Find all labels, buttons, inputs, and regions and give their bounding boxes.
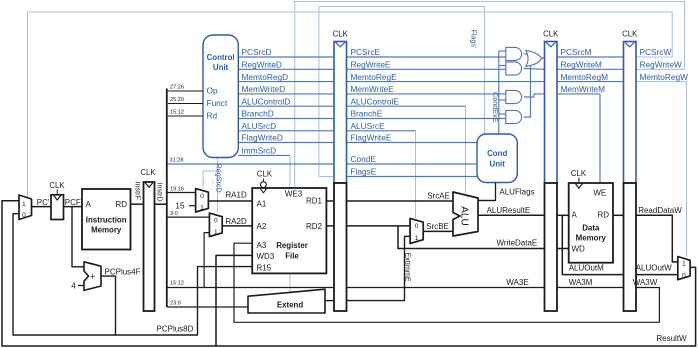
svg-text:27:26: 27:26 xyxy=(170,85,184,91)
svg-text:CLK: CLK xyxy=(571,169,587,178)
svg-text:RegSrcD: RegSrcD xyxy=(215,164,224,193)
svg-text:CLK: CLK xyxy=(543,30,559,39)
svg-text:PCF: PCF xyxy=(65,198,81,207)
extend unit xyxy=(248,289,325,313)
svg-text:0: 0 xyxy=(200,193,204,200)
wire PCF to adder xyxy=(72,207,84,267)
svg-text:ExtImmE: ExtImmE xyxy=(403,253,412,282)
wire MemWriteD xyxy=(238,93,334,95)
svg-text:Instruction: Instruction xyxy=(86,216,127,225)
wire MemtoRegD xyxy=(238,81,334,83)
svg-text:15:12: 15:12 xyxy=(170,110,184,116)
wire 4 constant xyxy=(78,285,84,287)
instruction memory xyxy=(82,189,131,250)
svg-text:WD3: WD3 xyxy=(257,252,275,261)
wire WA3W return to A3 xyxy=(234,243,659,322)
svg-text:RD2: RD2 xyxy=(306,222,323,231)
svg-text:Memory: Memory xyxy=(576,233,607,242)
svg-text:RA1D: RA1D xyxy=(225,191,247,200)
wire RegWriteM xyxy=(557,68,624,70)
svg-text:A1: A1 xyxy=(257,199,267,208)
wire 15 constant xyxy=(189,205,196,207)
svg-text:ImmSrcD: ImmSrcD xyxy=(242,146,277,156)
wire WA3E xyxy=(347,287,545,289)
svg-text:InstrD: InstrD xyxy=(155,183,164,202)
wire ALUResultE xyxy=(478,214,545,216)
svg-text:A2: A2 xyxy=(257,222,267,231)
wire 3:0 to RA2D mux xyxy=(167,216,210,218)
svg-text:PCSrcW: PCSrcW xyxy=(640,47,672,57)
wire gate outputs xyxy=(524,53,527,55)
svg-text:25:20: 25:20 xyxy=(170,97,184,103)
svg-text:MemWriteD: MemWriteD xyxy=(242,84,286,94)
svg-text:ResultW: ResultW xyxy=(656,334,687,343)
wire ImmSrcD select to Extend xyxy=(289,155,291,292)
svg-text:MemtoRegE: MemtoRegE xyxy=(351,72,398,82)
svg-text:19:16: 19:16 xyxy=(170,186,184,192)
svg-text:Control: Control xyxy=(207,53,235,62)
wire PCPlus8D to R15 xyxy=(116,267,253,335)
pipeline register M/W control section xyxy=(624,42,637,184)
wire FlagsE xyxy=(347,176,478,178)
svg-text:A3: A3 xyxy=(257,241,267,250)
svg-text:CondE: CondE xyxy=(351,154,377,164)
svg-text:ALUControlE: ALUControlE xyxy=(351,96,400,106)
wire RA2D to A2 xyxy=(222,225,252,227)
svg-text:Rd: Rd xyxy=(207,111,218,121)
svg-text:CLK: CLK xyxy=(140,168,156,177)
OR gate PCSrcM xyxy=(526,51,542,67)
wire RD2 to D/E register xyxy=(326,225,334,227)
mux ResultW xyxy=(678,257,690,280)
svg-text:3:0: 3:0 xyxy=(170,211,178,217)
svg-text:MemWriteE: MemWriteE xyxy=(351,84,395,94)
wire Rd 15:12 xyxy=(168,115,203,117)
svg-text:CLK: CLK xyxy=(333,30,349,39)
wire ALUOutM to data memory A xyxy=(557,214,569,216)
svg-text:BranchE: BranchE xyxy=(351,109,383,119)
svg-text:1: 1 xyxy=(415,235,419,242)
wire PCSrcD xyxy=(238,56,334,58)
wire PCSrcE xyxy=(347,56,506,58)
svg-text:ALUOutW: ALUOutW xyxy=(636,263,672,272)
svg-text:1: 1 xyxy=(200,204,204,211)
wire MemtoRegW to result mux select xyxy=(636,82,687,258)
wire ALUOutW to result mux xyxy=(636,274,678,276)
svg-text:1: 1 xyxy=(214,229,218,236)
svg-text:Data: Data xyxy=(582,224,600,233)
svg-text:MemtoRegM: MemtoRegM xyxy=(561,72,609,82)
AND gate PCSrcE&CondExE xyxy=(506,47,522,60)
wire ResultW xyxy=(2,201,696,346)
svg-text:PCPlus4F: PCPlus4F xyxy=(105,267,141,276)
svg-text:RegWriteD: RegWriteD xyxy=(242,60,282,70)
wire CondExE xyxy=(498,51,500,134)
wire PCSrcM xyxy=(557,56,624,58)
svg-text:0: 0 xyxy=(203,180,206,186)
wire MemWriteE xyxy=(347,93,506,95)
svg-text:WE3: WE3 xyxy=(285,190,303,199)
svg-text:RD1: RD1 xyxy=(306,196,323,205)
svg-text:MemWriteM: MemWriteM xyxy=(561,84,606,94)
svg-text:CLK: CLK xyxy=(257,169,273,178)
wire CondD 31:28 xyxy=(167,163,334,165)
svg-text:Flags': Flags' xyxy=(470,30,479,50)
svg-text:WA3E: WA3E xyxy=(506,278,528,287)
wire RegWriteD xyxy=(238,68,334,70)
svg-text:WE: WE xyxy=(593,189,606,198)
wire ImmSrcD xyxy=(238,154,290,156)
svg-text:FlagsE: FlagsE xyxy=(351,167,377,177)
svg-text:A: A xyxy=(86,200,92,209)
mux RA1D xyxy=(196,189,209,212)
wire 15:12 to RA2D input 1 xyxy=(204,233,209,288)
svg-text:SrcAE: SrcAE xyxy=(427,192,450,201)
wire Flags' feedback loop xyxy=(319,7,485,177)
svg-text:+: + xyxy=(90,271,96,282)
mux SrcBE xyxy=(410,218,423,243)
pipeline register E/M datapath xyxy=(545,183,558,311)
svg-text:RA2D: RA2D xyxy=(225,217,247,226)
wire Op 27:26 xyxy=(168,90,203,92)
svg-text:ALUControlD: ALUControlD xyxy=(242,96,291,106)
svg-text:Unit: Unit xyxy=(213,63,229,72)
wire ALUControlE select xyxy=(465,106,467,193)
wire BranchE xyxy=(347,118,506,120)
svg-text:RegWriteW: RegWriteW xyxy=(640,60,682,70)
svg-text:WD: WD xyxy=(572,244,586,253)
svg-text:ALUSrcE: ALUSrcE xyxy=(351,121,386,131)
svg-text:15:12: 15:12 xyxy=(170,280,184,286)
svg-text:23:0: 23:0 xyxy=(170,300,181,306)
register PC xyxy=(51,195,64,220)
wire RegWriteW feedback loop to WE3 xyxy=(295,2,685,189)
mux RA2D xyxy=(209,213,222,236)
svg-text:PCPlus8D: PCPlus8D xyxy=(157,325,194,334)
svg-text:RD: RD xyxy=(597,211,609,220)
bus InstrD vertical xyxy=(166,89,168,308)
wire PCF xyxy=(64,206,83,208)
svg-text:CLK: CLK xyxy=(49,181,65,190)
svg-text:ALUSrcD: ALUSrcD xyxy=(242,121,277,131)
wire WD3 riser xyxy=(216,255,252,346)
svg-text:A: A xyxy=(572,211,578,220)
adder PCPlus4 xyxy=(84,262,101,291)
svg-text:PCSrcD: PCSrcD xyxy=(242,47,272,57)
wire RD1 to D/E register xyxy=(326,200,334,202)
clock register file xyxy=(261,182,267,188)
svg-text:Funct: Funct xyxy=(207,98,228,108)
svg-text:BranchD: BranchD xyxy=(242,109,274,119)
wire ReadDataW to result mux xyxy=(636,215,678,262)
AND gate BranchE&CondExE xyxy=(506,110,522,123)
svg-text:RegWriteM: RegWriteM xyxy=(561,60,602,70)
wire MemtoRegE xyxy=(347,81,545,83)
svg-text:0: 0 xyxy=(22,212,26,219)
pipeline register D/E datapath xyxy=(334,183,347,311)
svg-text:ALUResultE: ALUResultE xyxy=(487,206,531,215)
svg-text:SrcBE: SrcBE xyxy=(426,222,449,231)
pipeline register F/D datapath xyxy=(144,182,155,311)
svg-text:Op: Op xyxy=(207,86,218,96)
svg-text:WA3M: WA3M xyxy=(569,278,593,287)
AND gate MemWriteE&CondExE xyxy=(506,90,522,103)
wire ALUFlags xyxy=(479,183,496,201)
wire WA3M xyxy=(557,287,624,289)
svg-text:WriteDataE: WriteDataE xyxy=(497,239,538,248)
cond unit U-cond xyxy=(477,134,517,183)
wire PC-prime xyxy=(32,206,52,208)
svg-text:Register: Register xyxy=(276,241,308,250)
svg-text:FlagWriteD: FlagWriteD xyxy=(242,133,283,143)
pipeline register D/E control section xyxy=(334,42,347,184)
svg-text:Extend: Extend xyxy=(277,300,303,309)
svg-text:CondExE: CondExE xyxy=(491,92,500,123)
wire FlagWriteE xyxy=(347,142,478,144)
svg-text:31:28: 31:28 xyxy=(170,158,184,164)
wire 23:0 to extend xyxy=(167,306,248,308)
svg-text:0: 0 xyxy=(415,223,419,230)
wire ExtImmE riser xyxy=(347,236,411,300)
svg-text:15: 15 xyxy=(175,201,185,210)
wire ALUControlD xyxy=(238,105,334,107)
svg-text:PCSrcE: PCSrcE xyxy=(351,47,381,57)
svg-text:R15: R15 xyxy=(257,263,272,272)
wire ExtImmD xyxy=(325,300,334,302)
wire ALUSrcE xyxy=(347,130,416,132)
svg-text:InstrF: InstrF xyxy=(133,182,142,201)
svg-text:ALU: ALU xyxy=(459,206,470,225)
wire RA1D to A1 xyxy=(208,200,252,202)
svg-text:FlagWriteE: FlagWriteE xyxy=(351,133,392,143)
clock data memory xyxy=(576,184,583,188)
wire RegSrcD selects xyxy=(217,158,219,214)
wire ALUSrcE select xyxy=(415,131,417,219)
wire ALUControlE xyxy=(347,105,466,107)
wire PCSrcW feedback loop xyxy=(28,12,673,197)
wire SrcBE to ALU xyxy=(423,230,453,232)
pipeline register M/W datapath xyxy=(624,183,637,311)
svg-text:4: 4 xyxy=(71,281,76,290)
ALU xyxy=(453,192,478,236)
wire ReadDataW xyxy=(613,214,624,216)
svg-text:1: 1 xyxy=(682,260,686,267)
svg-text:ALUFlags: ALUFlags xyxy=(499,188,534,197)
control unit xyxy=(203,35,238,158)
svg-text:WA3W: WA3W xyxy=(633,278,658,287)
svg-text:1: 1 xyxy=(22,201,26,208)
register file xyxy=(252,188,326,273)
svg-text:MemtoRegD: MemtoRegD xyxy=(242,72,289,82)
wire 15:12 WA3 xyxy=(167,287,334,289)
wire WriteDataE to WD xyxy=(557,248,569,250)
svg-text:0: 0 xyxy=(214,217,218,224)
svg-text:Unit: Unit xyxy=(490,160,506,169)
svg-text:ALUOutM: ALUOutM xyxy=(569,263,604,272)
svg-text:Cond: Cond xyxy=(487,149,507,158)
svg-text:ReadDataW: ReadDataW xyxy=(638,206,682,215)
wire Funct 25:20 xyxy=(168,103,203,105)
svg-text:0: 0 xyxy=(682,273,686,280)
wire RegWriteE xyxy=(347,68,506,70)
svg-text:File: File xyxy=(285,251,299,260)
wire ALUFlags from ALU xyxy=(478,200,496,202)
wire instruction RD to F/D register xyxy=(131,203,144,205)
wire MemWriteM xyxy=(557,94,600,183)
wire 19:16 to RA1D mux xyxy=(167,192,196,194)
svg-text:CLK: CLK xyxy=(622,30,638,39)
wire RD2E to SrcBE mux and WriteDataE xyxy=(347,225,411,227)
wire MemtoRegM xyxy=(557,81,624,83)
wire ALUSrcD xyxy=(238,130,334,132)
AND gate RegWriteE&CondExE xyxy=(506,62,522,75)
mux PC source xyxy=(19,195,32,220)
wire CondE xyxy=(347,163,478,165)
svg-text:RegWriteE: RegWriteE xyxy=(351,60,391,70)
pipeline register E/M control section xyxy=(545,42,558,184)
svg-text:MemtoRegW: MemtoRegW xyxy=(640,72,689,82)
svg-text:1: 1 xyxy=(212,180,215,186)
wire BranchD xyxy=(238,118,334,120)
svg-text:PC': PC' xyxy=(37,198,50,207)
wire SrcAE xyxy=(347,200,454,202)
svg-text:RD: RD xyxy=(115,200,127,209)
data memory xyxy=(569,183,613,263)
svg-text:Memory: Memory xyxy=(91,225,122,234)
wire FlagWriteD xyxy=(238,142,334,144)
wire ALUOutM branch to M/W register xyxy=(562,215,623,274)
wire InstrD to bus xyxy=(155,203,167,205)
svg-text:PCSrcM: PCSrcM xyxy=(561,47,592,57)
